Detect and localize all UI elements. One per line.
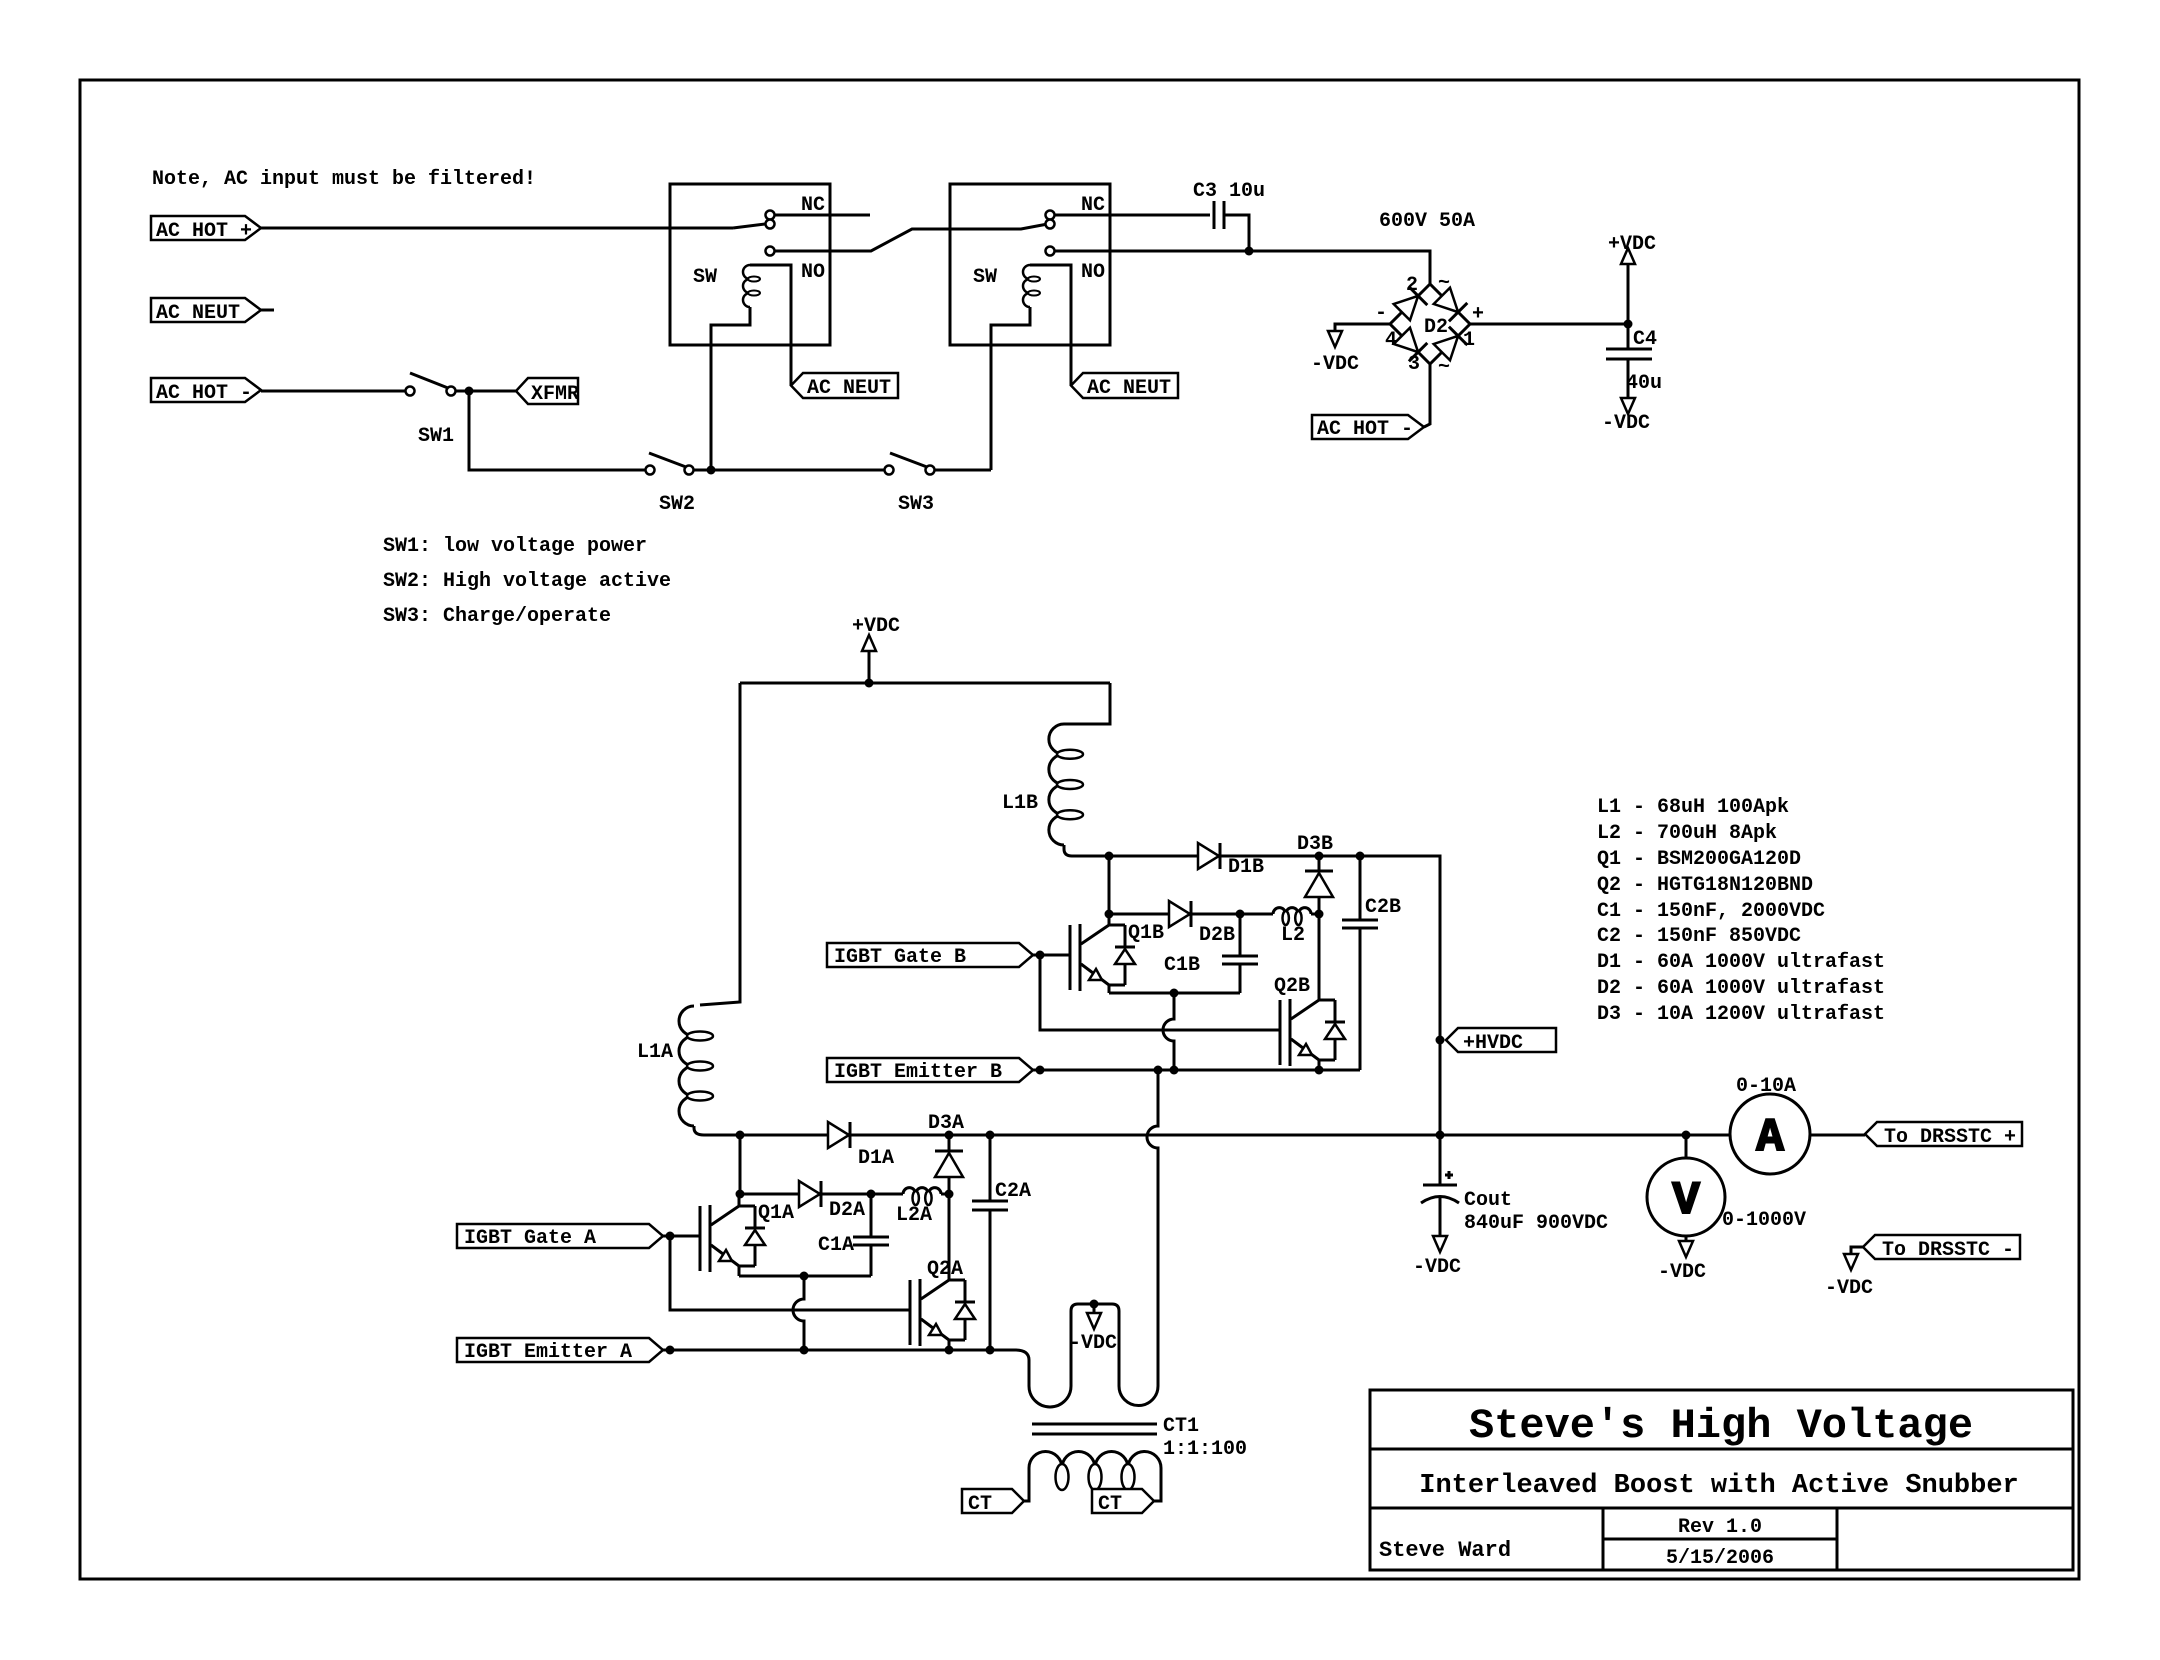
wire SW2 to SW3 with junction to relay K1 coil xyxy=(694,466,885,475)
svg-text:XFMR: XFMR xyxy=(531,383,579,406)
inductor L2 xyxy=(1273,908,1311,947)
power -VDC at voltmeter xyxy=(1658,1241,1706,1284)
node CT output label left xyxy=(962,1489,1024,1516)
transformer CT1 secondary xyxy=(1024,1452,1161,1502)
pin 4 label xyxy=(1385,329,1397,352)
svg-text:D3 - 10A 1200V ultrafast: D3 - 10A 1200V ultrafast xyxy=(1597,1003,1885,1026)
svg-text:V: V xyxy=(1672,1175,1700,1227)
inductor L1A xyxy=(637,1006,713,1126)
relay K2 (SW coil with NC/NO contacts) xyxy=(950,184,1110,470)
svg-text:L1B: L1B xyxy=(1002,792,1038,815)
svg-text:Steve's High Voltage: Steve's High Voltage xyxy=(1469,1402,1973,1450)
wire L1B node down to Q1B collector rail xyxy=(1108,856,1111,914)
pin 1 label xyxy=(1463,329,1475,352)
title block xyxy=(1370,1390,2073,1570)
wire relay K2 NO to bridge D2 xyxy=(1054,247,1430,285)
wire emitter rail down over gate A wire xyxy=(793,1276,804,1350)
svg-text:1:1:100: 1:1:100 xyxy=(1163,1438,1247,1461)
parts list xyxy=(1597,796,1885,1026)
node +HVDC label xyxy=(1436,1028,1557,1055)
svg-text:3: 3 xyxy=(1408,353,1420,376)
svg-text:Q2 - HGTG18N120BND: Q2 - HGTG18N120BND xyxy=(1597,874,1813,897)
svg-text:SW2: High voltage active: SW2: High voltage active xyxy=(383,570,671,593)
node To DRSSTC - label xyxy=(1863,1235,2020,1262)
diode D3A xyxy=(928,1112,964,1194)
wire bridge ~ bottom xyxy=(1424,364,1430,427)
transistor Q1B xyxy=(1070,914,1164,993)
pin ~ label bottom xyxy=(1438,356,1450,379)
svg-text:+VDC: +VDC xyxy=(852,615,900,638)
svg-text:+HVDC: +HVDC xyxy=(1463,1032,1523,1055)
pin + label xyxy=(1472,303,1484,326)
switch SW2 xyxy=(646,453,696,516)
svg-text:L2A: L2A xyxy=(896,1204,932,1227)
svg-text:C1A: C1A xyxy=(818,1234,854,1257)
voltmeter V xyxy=(1647,1135,1725,1241)
svg-text:Q2B: Q2B xyxy=(1274,975,1310,998)
svg-text:L1A: L1A xyxy=(637,1041,673,1064)
wire +VDC rail xyxy=(740,679,1110,688)
wire emitter A rail xyxy=(663,1346,995,1355)
node XFMR label xyxy=(516,378,579,406)
svg-text:AC NEUT: AC NEUT xyxy=(156,302,240,325)
svg-text:SW2: SW2 xyxy=(659,493,695,516)
diode D1B xyxy=(1198,843,1264,879)
svg-text:D1B: D1B xyxy=(1228,856,1264,879)
value label 0-10A xyxy=(1736,1075,1796,1098)
svg-text:Interleaved Boost with Active: Interleaved Boost with Active Snubber xyxy=(1419,1471,2019,1501)
wire Q1A emitter rail xyxy=(739,1272,871,1281)
svg-text:SW3: Charge/operate: SW3: Charge/operate xyxy=(383,605,611,628)
svg-text:-VDC: -VDC xyxy=(1602,412,1650,435)
diode D2A xyxy=(799,1181,865,1222)
svg-text:C2 - 150nF 850VDC: C2 - 150nF 850VDC xyxy=(1597,925,1801,948)
svg-text:-VDC: -VDC xyxy=(1825,1277,1873,1300)
node To DRSSTC + label xyxy=(1865,1122,2022,1149)
capacitor C1B xyxy=(1164,914,1258,993)
wire Q1A collector rail xyxy=(736,1190,954,1199)
svg-text:C1B: C1B xyxy=(1164,954,1200,977)
wire AC NEUT stub xyxy=(261,309,274,312)
svg-text:L1 - 68uH 100Apk: L1 - 68uH 100Apk xyxy=(1597,796,1789,819)
svg-text:C3 10u: C3 10u xyxy=(1193,180,1265,203)
svg-text:840uF 900VDC: 840uF 900VDC xyxy=(1464,1212,1608,1235)
svg-text:L2: L2 xyxy=(1281,924,1305,947)
svg-text:AC NEUT: AC NEUT xyxy=(1087,377,1171,400)
pin 3 label xyxy=(1408,353,1420,376)
wire rail down to L1B xyxy=(1064,683,1110,724)
wire gate B xyxy=(1033,951,1280,1031)
node IGBT Emitter B label xyxy=(827,1058,1033,1084)
node AC NEUT label under relay K2 xyxy=(1071,373,1178,400)
wire AC HOT + to relay K1 xyxy=(261,227,733,230)
svg-text:C4: C4 xyxy=(1633,328,1657,351)
capacitor C3 xyxy=(1193,180,1265,229)
wire Q1B collector rail xyxy=(1105,910,1324,919)
wire relay K1 NO to relay K2 common xyxy=(774,225,1045,252)
svg-text:D3A: D3A xyxy=(928,1112,964,1135)
wire emitter B rail xyxy=(1033,1066,1360,1075)
svg-text:IGBT Emitter A: IGBT Emitter A xyxy=(464,1341,632,1364)
wire gate A xyxy=(663,1232,910,1311)
power -VDC at C4 xyxy=(1602,398,1650,435)
wire SW1 junction down to SW2 row xyxy=(469,391,645,470)
node IGBT Emitter A label xyxy=(457,1338,663,1364)
svg-text:AC HOT -: AC HOT - xyxy=(1317,418,1413,441)
svg-text:CT: CT xyxy=(968,1493,992,1516)
switch SW3 xyxy=(885,453,935,516)
power -VDC at CT primary xyxy=(1069,1300,1117,1356)
node AC NEUT input label xyxy=(151,298,261,325)
capacitor Cout xyxy=(1421,1135,1608,1236)
svg-text:40u: 40u xyxy=(1626,372,1662,395)
svg-text:-VDC: -VDC xyxy=(1311,353,1359,376)
svg-text:To DRSSTC +: To DRSSTC + xyxy=(1884,1126,2016,1149)
svg-text:+VDC: +VDC xyxy=(1608,233,1656,256)
node AC NEUT label under relay K1 xyxy=(791,373,898,400)
node CT output label right xyxy=(1092,1489,1154,1516)
node IGBT Gate B label xyxy=(827,943,1033,969)
wire bridge - output xyxy=(1335,324,1390,331)
wire SW1 to XFMR with junction xyxy=(455,387,516,396)
svg-text:D2: D2 xyxy=(1424,316,1448,339)
svg-text:AC HOT +: AC HOT + xyxy=(156,220,252,243)
bridge rectifier D2 xyxy=(1390,284,1470,364)
capacitor C2B xyxy=(1342,856,1401,1070)
svg-text:C1 - 150nF, 2000VDC: C1 - 150nF, 2000VDC xyxy=(1597,900,1825,923)
power +VDC at C4 xyxy=(1608,233,1656,324)
svg-text:Q1 - BSM200GA120D: Q1 - BSM200GA120D xyxy=(1597,848,1801,871)
svg-text:A: A xyxy=(1756,1112,1784,1164)
svg-text:5/15/2006: 5/15/2006 xyxy=(1666,1547,1774,1570)
svg-text:IGBT Gate B: IGBT Gate B xyxy=(834,946,966,969)
svg-text:C2A: C2A xyxy=(995,1180,1031,1203)
capacitor C4 xyxy=(1606,324,1662,398)
svg-text:Q2A: Q2A xyxy=(927,1258,963,1281)
wire D1B to HVDC rail with D3B/C2B taps xyxy=(1221,852,1440,1136)
svg-text:~: ~ xyxy=(1438,356,1450,379)
svg-text:Q1A: Q1A xyxy=(758,1202,794,1225)
svg-text:AC HOT -: AC HOT - xyxy=(156,382,252,405)
wire Q1B emitter rail xyxy=(1109,989,1240,998)
svg-text:-VDC: -VDC xyxy=(1413,1256,1461,1279)
wire SW3 to relay K2 coil xyxy=(934,469,991,472)
svg-text:D1 - 60A 1000V ultrafast: D1 - 60A 1000V ultrafast xyxy=(1597,951,1885,974)
svg-text:L2 - 700uH 8Apk: L2 - 700uH 8Apk xyxy=(1597,822,1777,845)
svg-text:~: ~ xyxy=(1438,272,1450,295)
wire relay K2 NC to C3 xyxy=(1054,214,1210,217)
transformer CT1 core xyxy=(1032,1415,1247,1461)
svg-text:AC NEUT: AC NEUT xyxy=(807,377,891,400)
capacitor C2A xyxy=(972,1135,1031,1350)
svg-text:CT: CT xyxy=(1098,1493,1122,1516)
wire rail down to L1A xyxy=(700,683,740,1005)
wire emitter rail down over gate wire xyxy=(1163,993,1174,1070)
ammeter A xyxy=(1730,1094,1810,1174)
capacitor C1A xyxy=(818,1194,889,1276)
power -VDC at Cout xyxy=(1413,1236,1461,1279)
wire CT primary A loop xyxy=(990,1304,1094,1407)
wire bridge + output to C4 xyxy=(1470,320,1633,329)
switch SW1 xyxy=(406,373,456,448)
diode D1A xyxy=(828,1122,894,1170)
svg-text:-VDC: -VDC xyxy=(1658,1261,1706,1284)
svg-text:CT1: CT1 xyxy=(1163,1415,1199,1438)
svg-text:D2A: D2A xyxy=(829,1199,865,1222)
svg-text:D2 - 60A 1000V ultrafast: D2 - 60A 1000V ultrafast xyxy=(1597,977,1885,1000)
svg-text:0-1000V: 0-1000V xyxy=(1722,1209,1806,1232)
note text xyxy=(152,168,536,191)
wire CT primary B loop xyxy=(1094,1070,1158,1406)
node IGBT Gate A label xyxy=(457,1224,663,1250)
power -VDC at bridge xyxy=(1311,331,1359,376)
transistor Q2A xyxy=(910,1194,975,1350)
wire bus down to Q1A collector rail xyxy=(739,1135,742,1194)
svg-text:Note, AC input must be filtere: Note, AC input must be filtered! xyxy=(152,168,536,191)
svg-text:SW1: SW1 xyxy=(418,425,454,448)
svg-text:2: 2 xyxy=(1406,274,1418,297)
svg-text:C2B: C2B xyxy=(1365,896,1401,919)
wire main output bus xyxy=(736,1131,1866,1140)
pin 2 label xyxy=(1406,274,1418,297)
svg-text:D3B: D3B xyxy=(1297,833,1333,856)
wire C3 to junction xyxy=(1224,215,1249,251)
svg-text:Q1B: Q1B xyxy=(1128,922,1164,945)
node AC HOT + input label xyxy=(151,216,261,243)
svg-text:4: 4 xyxy=(1385,329,1397,352)
svg-text:Cout: Cout xyxy=(1464,1189,1512,1212)
svg-text:0-10A: 0-10A xyxy=(1736,1075,1796,1098)
node AC HOT - label at bridge xyxy=(1312,415,1424,441)
svg-text:D2B: D2B xyxy=(1199,924,1235,947)
transistor Q2B xyxy=(1274,914,1345,1070)
pin - label xyxy=(1375,302,1387,325)
switch legend text xyxy=(383,535,671,628)
wire AC HOT - to SW1 xyxy=(261,390,405,393)
inductor L2A xyxy=(896,1188,941,1227)
node AC HOT - input label xyxy=(151,378,261,405)
svg-text:SW3: SW3 xyxy=(898,493,934,516)
svg-text:-: - xyxy=(1375,302,1387,325)
svg-text:-VDC: -VDC xyxy=(1069,1332,1117,1355)
value label 600V 50A xyxy=(1379,210,1475,233)
wire L1A bottom to bus xyxy=(694,1126,740,1135)
svg-text:1: 1 xyxy=(1463,329,1475,352)
svg-text:600V 50A: 600V 50A xyxy=(1379,210,1475,233)
transistor Q1A xyxy=(700,1194,794,1276)
inductor L1B xyxy=(1002,724,1083,845)
svg-text:SW1: low voltage power: SW1: low voltage power xyxy=(383,535,647,558)
svg-text:Rev 1.0: Rev 1.0 xyxy=(1678,1516,1762,1539)
wire L1B bottom to D1B node xyxy=(1064,845,1198,861)
svg-text:IGBT Gate A: IGBT Gate A xyxy=(464,1227,596,1250)
power -VDC at DRSSTC - xyxy=(1825,1247,1873,1300)
power +VDC feed xyxy=(852,615,900,683)
value label 0-1000V xyxy=(1722,1209,1806,1232)
relay K1 (SW coil with NC/NO contacts) xyxy=(670,184,870,470)
svg-text:IGBT Emitter B: IGBT Emitter B xyxy=(834,1061,1002,1084)
pin ~ label top xyxy=(1438,272,1450,295)
svg-text:To DRSSTC -: To DRSSTC - xyxy=(1882,1239,2014,1262)
diode D3B xyxy=(1297,833,1333,914)
svg-text:D1A: D1A xyxy=(858,1147,894,1170)
svg-text:Steve Ward: Steve Ward xyxy=(1379,1538,1511,1563)
diode D2B xyxy=(1169,901,1235,947)
